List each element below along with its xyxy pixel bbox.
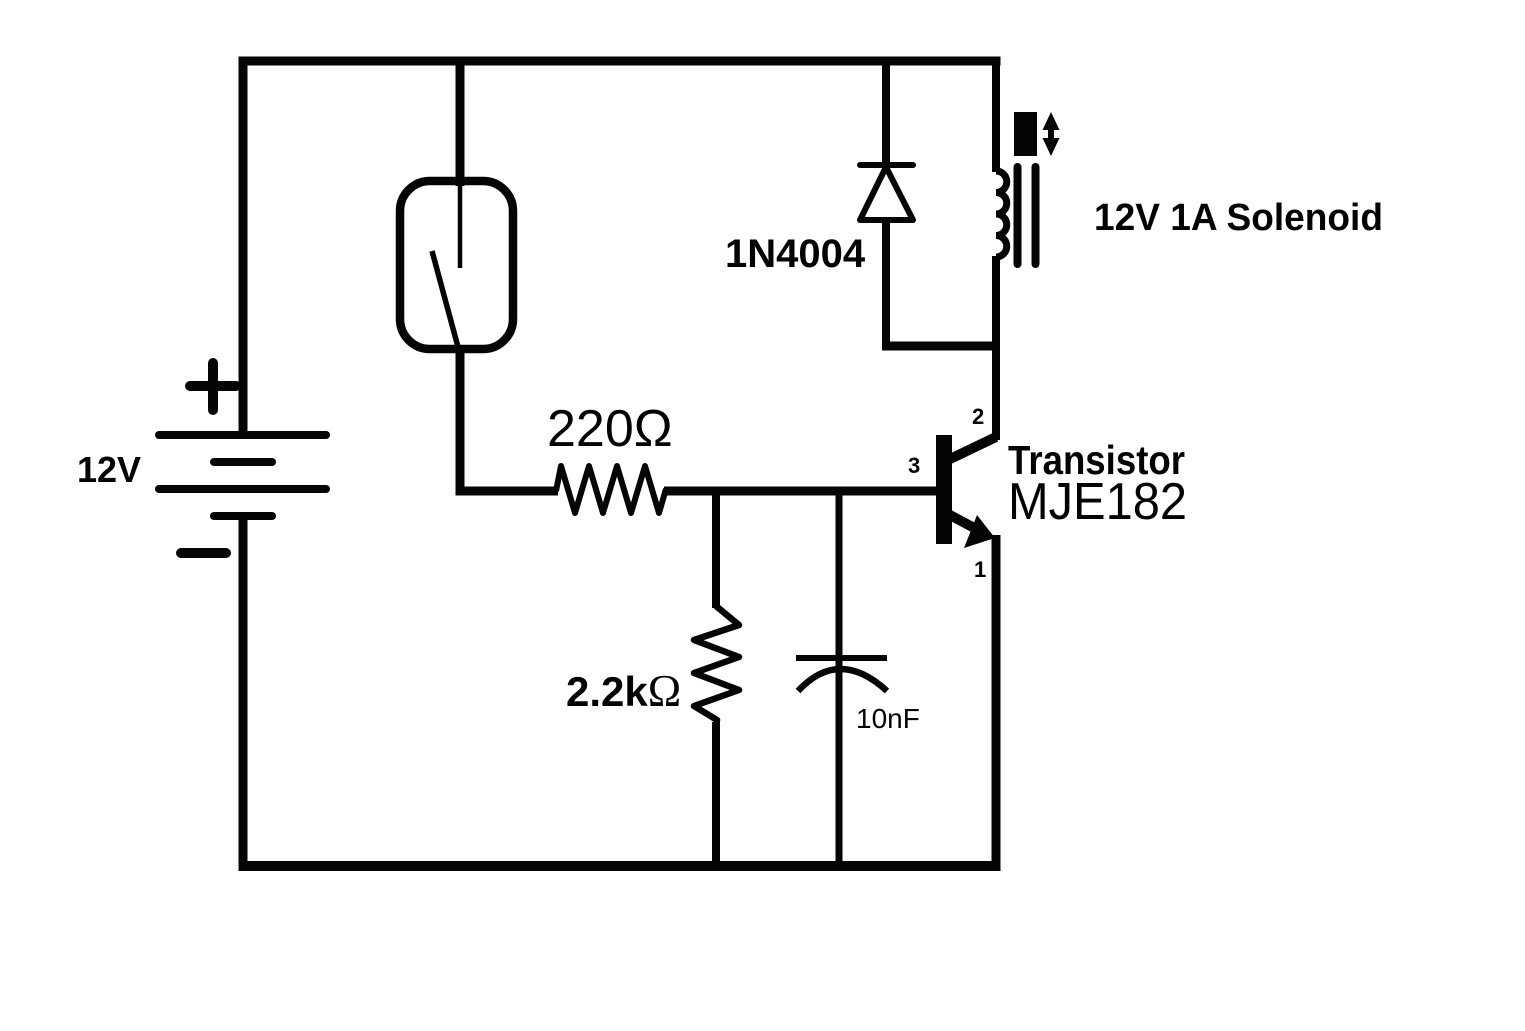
switch S1 fixed contact (inner vertical line)	[458, 185, 463, 268]
switch S1 moving contact (slanted line)	[432, 251, 461, 358]
wire: 2.2k branch from base rail down	[712, 491, 720, 608]
svg-text:MJE182: MJE182	[1008, 473, 1187, 531]
transistor Q1 base bar	[936, 435, 952, 544]
wire: right vertical from top rail to solenoid	[992, 61, 1000, 172]
svg-text:12V: 12V	[77, 449, 141, 490]
wire: emitter vertical down to bottom rail	[992, 535, 1001, 866]
resistor R2 2.2kohm zigzag	[694, 606, 739, 726]
solenoid motion double arrow	[1043, 112, 1060, 156]
wire: diode bottom lead	[882, 219, 890, 350]
wire: left vertical (battery + to top rail)	[239, 57, 248, 436]
wire: switch branch from top rail down to switch S1	[456, 61, 465, 186]
transistor Q1 collector diagonal	[948, 437, 996, 460]
wire: bottom rail	[239, 861, 1001, 871]
solenoid core bar 1	[1014, 167, 1022, 264]
wire: capacitor bottom lead to bottom rail	[836, 660, 843, 866]
wire: diode loop bottom horizontal to right vertical	[882, 342, 1000, 351]
resistor R1 220ohm zigzag	[556, 466, 666, 513]
transistor Q1 emitter arrowhead	[964, 515, 995, 548]
svg-text:1N4004: 1N4004	[725, 232, 866, 276]
inductor L1 solenoid coil	[996, 171, 1007, 257]
battery BT1 plate 3 (long)	[159, 485, 326, 493]
diode D1 1N4004 triangle	[860, 167, 913, 220]
svg-text:1: 1	[974, 557, 986, 582]
wire: base rail left segment (switch to resistor 220)	[456, 487, 559, 496]
wire: left vertical (battery - down to bottom rail)	[239, 516, 248, 866]
battery BT1 plus sign	[190, 363, 236, 410]
battery BT1 minus sign	[181, 548, 226, 558]
wire: capacitor branch from base rail down	[836, 491, 843, 662]
wire: 2.2k bottom lead to bottom rail	[712, 722, 720, 866]
diode D1 1N4004 cathode bar	[860, 162, 913, 168]
solenoid core bar 2	[1032, 167, 1040, 264]
battery BT1 plate 1 (long, +)	[159, 431, 326, 439]
svg-text:2: 2	[972, 404, 984, 429]
svg-text:12V 1A Solenoid: 12V 1A Solenoid	[1094, 197, 1383, 239]
wire: right vertical from coil bottom to transistor collector	[992, 256, 1000, 440]
wire: from switch S1 bottom down to base rail	[456, 349, 465, 496]
wire: top rail	[239, 57, 1001, 66]
solenoid armature (filled rectangle)	[1014, 112, 1037, 156]
battery BT1 plate 2 (short)	[214, 458, 272, 466]
capacitor C1 top plate	[796, 655, 887, 661]
wire: diode branch from top rail down	[882, 61, 890, 170]
wire: base rail right segment (resistor 220 to transistor base)	[664, 487, 938, 496]
transistor Q1 emitter diagonal	[948, 514, 980, 531]
svg-text:3: 3	[908, 453, 920, 478]
svg-text:2.2kΩ: 2.2kΩ	[566, 666, 681, 716]
capacitor C1 bottom plate (curved)	[798, 669, 887, 691]
svg-text:10nF: 10nF	[856, 703, 920, 734]
svg-text:220Ω: 220Ω	[547, 400, 673, 458]
switch S1 (tilt switch) body	[400, 181, 513, 349]
battery BT1 plate 4 (short, -)	[214, 512, 272, 520]
